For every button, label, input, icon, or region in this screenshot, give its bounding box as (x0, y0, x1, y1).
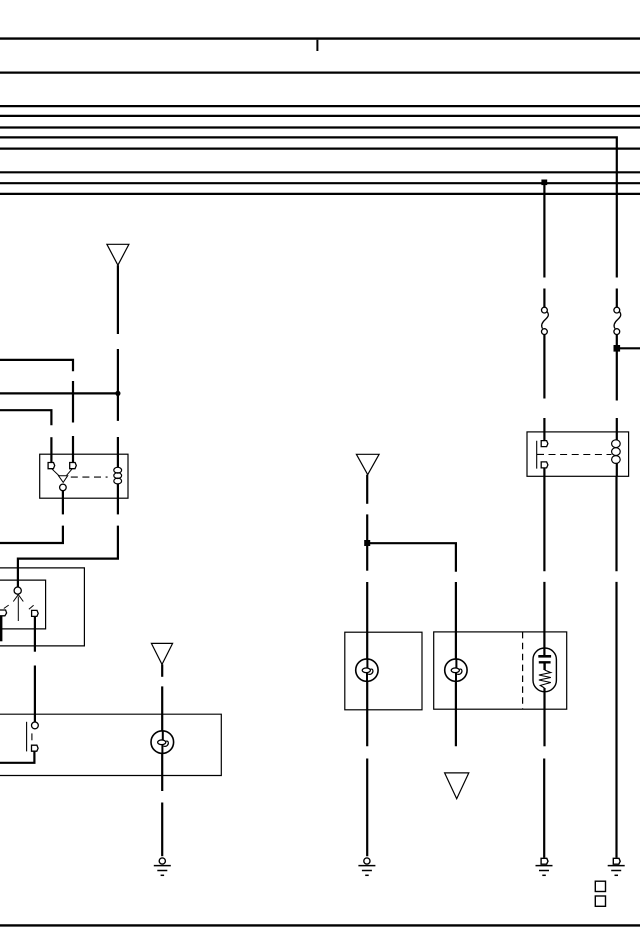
wire middle column C lower (366, 759, 368, 857)
relay K2 box (527, 432, 629, 476)
bus wire 3 (0, 105, 640, 107)
wire branch to lamp column D (367, 543, 456, 572)
bus wire 6 turning down at right (0, 137, 617, 277)
relay K2 dashed link (549, 454, 612, 456)
wire right column A below relay (615, 476, 617, 571)
bus wire 4 (0, 115, 640, 117)
wire left column E through junction (117, 349, 119, 421)
triangle connector T3 (151, 643, 172, 664)
wire right column B upper segment (543, 183, 545, 277)
wire from S2 to left edge (0, 751, 34, 763)
wire branch H2 (0, 392, 118, 394)
thermal element E1 second plate with stem (539, 662, 551, 670)
node junction dot middle (364, 540, 370, 546)
wire below lamp L1 (161, 753, 163, 791)
node junction dot left (115, 391, 120, 396)
wire right column A segment above fuse (616, 289, 618, 308)
wire column G into relay (50, 437, 52, 462)
wire right column A below fuse (616, 335, 618, 401)
lamp L1 (151, 731, 174, 754)
triangle connector T1 (107, 244, 129, 265)
wire below thermal element (543, 688, 545, 746)
wire right column A into relay coil (616, 418, 618, 440)
wire column F segment (72, 381, 74, 423)
wire middle column C into left mid box (366, 582, 368, 659)
wire branch H3 with corner (0, 410, 51, 425)
relay K1 box (40, 454, 128, 498)
switch S1 outer box (0, 568, 84, 646)
wire right column B below fuse (543, 335, 545, 399)
switch S1 wiper arrow (13, 595, 23, 602)
switch S1 common terminal (14, 587, 21, 594)
wire right column A to ground (615, 582, 617, 858)
lamp L2 (356, 659, 378, 681)
relay K1 terminal pin left (48, 463, 55, 469)
relay K2 switch blade (537, 441, 544, 469)
relay K1 dashed link (71, 476, 108, 478)
ground G2 (358, 858, 375, 875)
ground G1 (154, 858, 171, 875)
switch S2 dashed link (31, 733, 33, 740)
bus wire 10 (0, 193, 640, 195)
wire column to lamp box (34, 666, 36, 723)
wire to ground G1 (161, 803, 163, 857)
ground G4 (608, 858, 625, 875)
ground G3 (536, 858, 553, 875)
wire branch H1 with corner (0, 360, 73, 371)
box right mid component (434, 632, 567, 709)
relay K1 switch arms (52, 469, 72, 476)
bottom border line (0, 924, 640, 926)
wire middle column C from triangle (366, 475, 368, 504)
bus wire 1 (0, 37, 640, 39)
wire relay K1 coil return corner (18, 526, 118, 588)
switch S2 blade (26, 722, 28, 752)
connector square upper (595, 881, 605, 891)
wire right column B into relay (543, 418, 545, 441)
wire column F into relay (72, 436, 74, 462)
wire below T3 (161, 664, 163, 676)
wire left column E into relay coil (117, 437, 119, 467)
switch S1 right contact pin (32, 610, 39, 616)
lamp L3 (445, 659, 467, 681)
relay K1 switch arrow (59, 476, 68, 483)
wire from S1 left contact (0, 616, 2, 642)
fuse F1 (614, 307, 621, 334)
wire below lamp L2 (366, 681, 368, 746)
box left mid component (345, 632, 422, 710)
relay K1 common terminal (60, 484, 67, 491)
switch S1 inner box (0, 580, 46, 629)
thermal element E1 stadium outline (533, 648, 556, 692)
wire relay K1 switch exit (62, 491, 64, 515)
relay K2 terminal pin top (541, 441, 548, 447)
switch S1 left contact tick (4, 605, 9, 608)
fuse F2 (542, 307, 549, 334)
connector square lower (595, 896, 605, 906)
switch S2 upper terminal (32, 722, 39, 729)
triangle connector T2 (356, 454, 379, 474)
relay K2 coil (612, 440, 621, 464)
wire stub to right edge (617, 347, 640, 349)
thermal element E1 top plate (538, 655, 551, 658)
wire from S1 right contact (34, 616, 36, 651)
wire column D into right mid box (455, 582, 457, 659)
wire below lamp L3 (455, 681, 457, 746)
bus wire 9 (0, 182, 640, 184)
bus wire 2 (0, 71, 640, 73)
relay K1 terminal pin right (70, 463, 77, 469)
switch S1 wiper arm (17, 597, 19, 622)
node junction dot on bus wire 9 (541, 180, 547, 186)
wire right column B below relay (543, 468, 545, 571)
dashed internal divider (522, 632, 524, 709)
wire middle column C through junction (366, 514, 368, 570)
triangle connector T4 pointing down (445, 773, 469, 799)
wire relay K1 coil exit (117, 484, 119, 515)
wire left column E from triangle (117, 265, 119, 334)
wire relay K1 switch to left edge (0, 526, 63, 543)
bus wire 5 (0, 126, 640, 128)
relay K1 coil (114, 467, 122, 484)
wire right column B into right box (543, 582, 545, 655)
switch S1 right contact tick (29, 605, 34, 609)
tick junction on bus wire 1 (316, 40, 318, 51)
wire right column B segment above fuse (543, 289, 545, 308)
node junction dot at x617 (614, 345, 621, 352)
bus wire 8 (0, 171, 640, 173)
wire column B lower to ground (543, 759, 545, 858)
lamp box (0, 714, 221, 775)
wire into lamp box (161, 686, 163, 731)
switch S1 left contact pin (0, 610, 7, 616)
wire relay K2 coil exit (616, 463, 618, 476)
thermal element E1 heater zigzag (539, 670, 551, 688)
switch S2 lower terminal pin (32, 745, 39, 751)
relay K2 terminal pin bottom (541, 462, 548, 468)
bus wire 7 (0, 148, 640, 150)
